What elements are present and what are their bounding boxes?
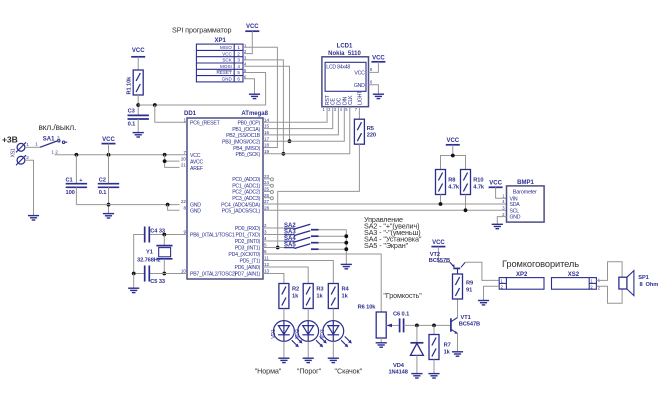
svg-text:R3: R3 bbox=[316, 287, 323, 293]
DD1 pin 20 AVCC bbox=[181, 156, 204, 165]
wire PD5 to R4 bbox=[263, 261, 333, 284]
resistor R5 220 bbox=[354, 119, 376, 144]
svg-text:26: 26 bbox=[264, 193, 270, 198]
svg-text:VCC: VCC bbox=[354, 71, 365, 77]
svg-text:XP2: XP2 bbox=[516, 272, 528, 278]
svg-text:1: 1 bbox=[237, 45, 240, 50]
wire branch to GND pin 8 bbox=[168, 205, 180, 211]
svg-text:VCC: VCC bbox=[432, 240, 445, 246]
svg-text:PC2_(ADC2): PC2_(ADC2) bbox=[232, 190, 260, 196]
wire XP1 pin2 to VCC bbox=[243, 31, 252, 53]
DD1 right pins PB0-PB5 bbox=[222, 117, 270, 158]
power VCC symbol above R1 bbox=[131, 48, 145, 70]
wire XS1 pin1 to SA1 bbox=[25, 146, 40, 148]
power VCC symbol above R8/R10 bbox=[446, 138, 460, 155]
wire PD2 row bbox=[263, 240, 294, 242]
svg-text:28: 28 bbox=[264, 205, 270, 210]
svg-text:"Скачок": "Скачок" bbox=[335, 367, 363, 376]
svg-text:PB4_(MISO): PB4_(MISO) bbox=[233, 146, 260, 152]
svg-text:MOSI: MOSI bbox=[220, 64, 232, 69]
svg-text:PD2_(INT0): PD2_(INT0) bbox=[235, 239, 261, 245]
svg-text:PB7_(XTAL2/TOSC2): PB7_(XTAL2/TOSC2) bbox=[190, 272, 237, 278]
svg-text:4.7k: 4.7k bbox=[473, 185, 485, 191]
wire SA4 to common bbox=[319, 242, 347, 244]
svg-text:GND: GND bbox=[354, 83, 365, 89]
resistor R9 91 bbox=[453, 274, 474, 299]
svg-text:Y1: Y1 bbox=[146, 250, 153, 256]
svg-text:PD4_(XCK/T0): PD4_(XCK/T0) bbox=[228, 252, 260, 258]
capacitor C5 33 bbox=[145, 266, 165, 286]
svg-text:SDA: SDA bbox=[510, 202, 521, 208]
svg-text:11: 11 bbox=[264, 256, 269, 261]
ground at XS1 pin2 bbox=[28, 216, 39, 220]
junction GND pin branch bbox=[166, 203, 170, 207]
crystal Y1 32.768Hz bbox=[137, 235, 173, 274]
connector XS1 pin 2 bbox=[17, 156, 25, 164]
svg-text:27: 27 bbox=[264, 199, 270, 204]
svg-text:SCL: SCL bbox=[510, 208, 520, 214]
junction at C1 top bbox=[75, 153, 79, 157]
wire SA5 to common bbox=[319, 248, 347, 250]
svg-text:4.7k: 4.7k bbox=[448, 185, 460, 191]
junction MOSI net bbox=[288, 139, 292, 143]
svg-text:PC0_(ADC0): PC0_(ADC0) bbox=[232, 177, 260, 183]
svg-text:8 Ohm: 8 Ohm bbox=[640, 282, 659, 288]
junction VCC pins branch bbox=[163, 153, 167, 157]
svg-text:C3: C3 bbox=[128, 109, 135, 115]
ground at crystal bbox=[128, 288, 139, 292]
svg-text:GND: GND bbox=[190, 202, 201, 208]
wire SA3 to common bbox=[319, 235, 347, 237]
svg-text:VCC: VCC bbox=[489, 181, 502, 187]
svg-text:"Норма": "Норма" bbox=[255, 367, 282, 376]
svg-text:19: 19 bbox=[264, 149, 270, 154]
svg-text:1N4148: 1N4148 bbox=[388, 370, 407, 376]
LCD1 Nokia 5110 bbox=[322, 44, 373, 112]
svg-text:24: 24 bbox=[264, 180, 270, 185]
svg-text:4: 4 bbox=[264, 236, 267, 241]
ground below C2 bbox=[103, 214, 114, 218]
crystal section: wire PB6 row bbox=[134, 235, 180, 274]
ground at BMP1 bbox=[492, 224, 503, 228]
junction VD4 bbox=[415, 324, 419, 328]
ground at XP2 bbox=[478, 301, 489, 305]
svg-text:32.768Hz: 32.768Hz bbox=[137, 257, 161, 263]
svg-text:С6 0.1: С6 0.1 bbox=[393, 312, 409, 318]
svg-text:R8: R8 bbox=[448, 178, 455, 184]
svg-text:PC3_(ADC3): PC3_(ADC3) bbox=[232, 196, 260, 202]
svg-text:4: 4 bbox=[237, 64, 240, 69]
svg-text:PB1_(OC1A): PB1_(OC1A) bbox=[232, 127, 260, 133]
LED VD1 bbox=[271, 321, 303, 358]
svg-text:2: 2 bbox=[264, 223, 267, 228]
svg-text:VCC: VCC bbox=[222, 51, 232, 56]
svg-text:14: 14 bbox=[264, 117, 270, 122]
svg-text:VCC: VCC bbox=[132, 48, 145, 54]
svg-text:18: 18 bbox=[264, 143, 270, 148]
resistor R8 4.7k bbox=[436, 170, 460, 205]
junction C2 bottom bbox=[107, 203, 111, 207]
svg-text:10: 10 bbox=[181, 269, 187, 274]
svg-text:"Громкость": "Громкость" bbox=[383, 291, 422, 300]
connector XS1 pin 1 bbox=[17, 143, 25, 151]
svg-text:C5 33: C5 33 bbox=[150, 279, 165, 285]
wire GND rail C1 to DD1 bbox=[76, 204, 179, 206]
resistor R1 10k bbox=[127, 70, 144, 115]
svg-text:MISO: MISO bbox=[220, 45, 232, 50]
capacitor C2 bbox=[98, 155, 119, 214]
svg-text:SPI программатор: SPI программатор bbox=[172, 25, 232, 34]
svg-text:91: 91 bbox=[466, 288, 472, 294]
svg-text:R7: R7 bbox=[444, 343, 451, 349]
wire XS1 pin2 to ground bbox=[25, 160, 34, 215]
DD1 NC pin 25 stub bbox=[263, 191, 273, 194]
svg-text:23: 23 bbox=[264, 174, 270, 179]
wire BMP1 GND to ground bbox=[497, 217, 506, 225]
DD1 pin 10 PB7_(XTAL2/TOSC2 bbox=[180, 269, 237, 278]
svg-text:PC5_(ADC5/SCL): PC5_(ADC5/SCL) bbox=[222, 209, 261, 215]
button SA2 bbox=[284, 223, 319, 230]
switch SA1 bbox=[25, 135, 67, 154]
wire XP1 pin3 SCK vertical bbox=[243, 60, 283, 154]
svg-text:R4: R4 bbox=[342, 287, 350, 293]
svg-text:VD4: VD4 bbox=[393, 363, 405, 369]
svg-text:PB2_(SS/OC1B: PB2_(SS/OC1B bbox=[226, 133, 261, 139]
svg-text:12: 12 bbox=[264, 262, 270, 267]
power VCC symbol at BMP1 bbox=[489, 181, 503, 188]
svg-text:R10: R10 bbox=[473, 178, 483, 184]
svg-text:вкл./выкл.: вкл./выкл. bbox=[39, 122, 77, 132]
ground at LCD bbox=[373, 94, 384, 98]
wire VCC to pullups bbox=[441, 156, 466, 170]
junction SA4 common bbox=[344, 241, 348, 245]
LED VD3 bbox=[320, 321, 352, 358]
resistor R2 1k bbox=[279, 284, 299, 321]
resistor R7 1k bbox=[429, 325, 451, 373]
junction RESET to pin1 bbox=[153, 103, 157, 107]
DD1 NC pin 23 stub bbox=[263, 178, 273, 181]
ground at VD1 bbox=[278, 358, 289, 362]
wire PD6 to R3 bbox=[263, 267, 308, 284]
svg-text:VCC: VCC bbox=[446, 138, 459, 144]
junction SCK net bbox=[282, 152, 286, 156]
svg-text:3: 3 bbox=[57, 135, 60, 140]
DD1 pin 7 VCC bbox=[183, 150, 200, 159]
svg-text:AVCC: AVCC bbox=[190, 160, 204, 166]
ground at VT1 bbox=[452, 352, 463, 356]
svg-text:R5: R5 bbox=[367, 126, 374, 132]
connector XS1 bbox=[11, 142, 30, 165]
DD1 right pins PD0-PD7 bbox=[228, 223, 269, 278]
svg-text:CLK: CLK bbox=[348, 95, 354, 105]
svg-text:C1: C1 bbox=[66, 178, 73, 184]
svg-text:SP1: SP1 bbox=[638, 275, 648, 281]
svg-text:1: 1 bbox=[183, 117, 186, 122]
wire branch to AVCC/AREF pins bbox=[165, 155, 180, 168]
junction Y1 bottom bbox=[162, 272, 166, 276]
ground at R7 bbox=[428, 374, 439, 378]
IC DD1 ATmega8 bbox=[184, 111, 269, 279]
svg-text:21: 21 bbox=[181, 163, 187, 168]
svg-text:100: 100 bbox=[66, 190, 75, 196]
svg-text:R6 10k: R6 10k bbox=[358, 304, 377, 310]
switch SA1 lever bbox=[40, 141, 57, 147]
svg-text:PD5_(T1): PD5_(T1) bbox=[240, 259, 261, 265]
wire LCD LIGHT to R5 bbox=[358, 107, 360, 120]
connector XP1 bbox=[196, 38, 247, 82]
wire LCD DC to PB2 bbox=[263, 107, 338, 135]
wire PD3 row bbox=[263, 247, 294, 249]
svg-text:R1 10k: R1 10k bbox=[127, 76, 133, 95]
svg-text:VCC: VCC bbox=[102, 137, 115, 143]
svg-text:PD7_(AIN1): PD7_(AIN1) bbox=[235, 272, 261, 278]
junction SA3 common bbox=[344, 234, 348, 238]
LED VD2 bbox=[295, 321, 327, 358]
svg-text:BC557B: BC557B bbox=[429, 258, 450, 264]
svg-text:1: 1 bbox=[26, 142, 29, 147]
svg-text:PB5_(SCK): PB5_(SCK) bbox=[235, 152, 260, 158]
wire VCC rail from SA1 to DD1 bbox=[55, 154, 188, 156]
svg-text:25: 25 bbox=[264, 187, 270, 192]
svg-text:RESET: RESET bbox=[216, 70, 232, 75]
connector XS2 bbox=[552, 272, 601, 291]
wire SDA PC4 to BMP1 bbox=[263, 203, 507, 205]
svg-text:7: 7 bbox=[183, 150, 186, 155]
wire XS2 pin2 to speaker bbox=[596, 286, 622, 303]
ground at VD4 bbox=[411, 374, 422, 378]
wire VT2 collector to XP2 bbox=[465, 262, 499, 280]
power VCC symbol at XP1 pin2 bbox=[245, 24, 259, 31]
ground below C3 bbox=[133, 133, 144, 137]
junction pullup VCC bbox=[451, 154, 455, 158]
svg-text:1: 1 bbox=[35, 142, 38, 147]
svg-text:3: 3 bbox=[237, 58, 240, 63]
junction SA5 common bbox=[344, 247, 348, 251]
capacitor C1 bbox=[66, 155, 88, 205]
wire XP1 pin6 to ground bbox=[243, 79, 255, 94]
svg-text:Громкоговоритель: Громкоговоритель bbox=[502, 259, 579, 269]
resistor R4 1k bbox=[328, 284, 349, 321]
power VCC symbol at LCD bbox=[371, 55, 385, 62]
svg-text:VT1: VT1 bbox=[461, 315, 471, 321]
resistor R10 4.7k bbox=[461, 170, 485, 211]
svg-text:Barometer: Barometer bbox=[513, 189, 537, 195]
junction R1/C3 bbox=[136, 103, 140, 107]
svg-text:8: 8 bbox=[183, 206, 186, 211]
svg-text:17: 17 bbox=[264, 136, 270, 141]
speaker SP1 8 Ohm bbox=[619, 271, 658, 296]
svg-text:0.1: 0.1 bbox=[99, 190, 107, 196]
svg-text:+3В: +3В bbox=[2, 135, 18, 145]
svg-text:VCC: VCC bbox=[246, 24, 259, 30]
wire XP1 pin1 MISO to PB4 bbox=[243, 47, 277, 147]
svg-text:VD1: VD1 bbox=[271, 329, 277, 339]
svg-text:VD2: VD2 bbox=[295, 329, 301, 339]
svg-text:XP1: XP1 bbox=[215, 38, 227, 44]
svg-text:XS2: XS2 bbox=[568, 272, 580, 278]
junction left crystal rail bbox=[132, 272, 136, 276]
DD1 pin 1 PC6_(RESET bbox=[180, 117, 221, 126]
ground at VD2 bbox=[303, 358, 314, 362]
svg-text:BC547B: BC547B bbox=[459, 322, 480, 328]
ground at R6 bbox=[376, 343, 387, 347]
wire PB7 row bbox=[134, 273, 180, 275]
wire LCD VCC pin 8 bbox=[369, 62, 379, 73]
svg-text:SCK: SCK bbox=[222, 58, 232, 63]
wire XS2 pin1 to speaker bbox=[596, 262, 622, 281]
svg-text:PB3_(MOSI/OC2): PB3_(MOSI/OC2) bbox=[222, 140, 261, 146]
wire RESET net horizontal bbox=[138, 73, 265, 106]
svg-text:XS1: XS1 bbox=[11, 148, 17, 157]
button SA3 bbox=[284, 230, 319, 237]
svg-text:GND: GND bbox=[510, 215, 521, 221]
DD1 pin 9 PB6_(XTAL1/TOSC1 bbox=[180, 230, 235, 239]
label Управление block bbox=[364, 215, 422, 250]
transistor VT2 BC557B bbox=[429, 252, 465, 274]
svg-text:PD6_(AIN0): PD6_(AIN0) bbox=[235, 265, 261, 271]
svg-text:5: 5 bbox=[264, 243, 267, 248]
DD1 NC pin 24 stub bbox=[263, 184, 273, 187]
svg-text:6: 6 bbox=[237, 77, 240, 82]
svg-text:SA5 - "Экран": SA5 - "Экран" bbox=[364, 241, 409, 250]
ground at VD3 bbox=[328, 358, 339, 362]
ground at buttons bbox=[341, 264, 352, 268]
DD1 pin 8 GND bbox=[183, 206, 201, 215]
svg-text:3: 3 bbox=[264, 230, 267, 235]
wire XP2 pin2 to ground bbox=[484, 286, 500, 300]
svg-text:LIGHT: LIGHT bbox=[357, 90, 363, 105]
svg-text:1k: 1k bbox=[292, 293, 299, 299]
wire VT1 collector to R9 bbox=[457, 300, 459, 318]
svg-text:1k: 1k bbox=[444, 349, 451, 355]
wire buttons common to ground bbox=[345, 230, 347, 265]
potentiometer R6 10k bbox=[358, 304, 400, 342]
svg-text:PC1_(ADC1): PC1_(ADC1) bbox=[232, 183, 260, 189]
wire XP1 pin4 MOSI vertical bbox=[243, 66, 290, 141]
wire VCC to BMP1 VIN bbox=[496, 187, 507, 198]
svg-text:LCD 84x48: LCD 84x48 bbox=[326, 64, 350, 70]
svg-text:PC6_(RESET: PC6_(RESET bbox=[190, 121, 221, 127]
junction AVCC branch bbox=[163, 159, 167, 163]
svg-text:PD0_(RXD): PD0_(RXD) bbox=[235, 226, 261, 232]
capacitor C6 0.1 bbox=[393, 312, 409, 333]
svg-text:LCD1: LCD1 bbox=[337, 44, 353, 50]
svg-text:R9: R9 bbox=[466, 281, 473, 287]
wire VT1 emitter to ground bbox=[457, 334, 459, 352]
button SA4 bbox=[284, 236, 319, 243]
svg-text:GND: GND bbox=[222, 77, 233, 82]
capacitor C3 bbox=[128, 109, 149, 133]
DD1 pin 21 AREF bbox=[181, 163, 203, 172]
svg-text:PB6_(XTAL1/TOSC1: PB6_(XTAL1/TOSC1 bbox=[190, 233, 235, 239]
DD1 right pins PC0-PC5 bbox=[221, 174, 269, 215]
svg-text:PB0_(ICP): PB0_(ICP) bbox=[237, 121, 260, 127]
svg-text:22: 22 bbox=[181, 199, 187, 204]
ground at XP1 pin6 bbox=[249, 94, 260, 98]
svg-text:1k: 1k bbox=[316, 293, 323, 299]
connector XP2 bbox=[499, 272, 544, 290]
wire PD1 row bbox=[263, 234, 294, 236]
svg-text:15: 15 bbox=[264, 124, 270, 129]
transistor VT1 BC547B bbox=[451, 315, 480, 334]
svg-text:2: 2 bbox=[237, 51, 240, 56]
button SA5 bbox=[284, 243, 319, 250]
junction backlight/SA5 bbox=[276, 246, 280, 250]
power VCC symbol above C2 bbox=[102, 137, 116, 155]
svg-text:DD1: DD1 bbox=[184, 111, 197, 117]
module BMP1 Barometer bbox=[502, 180, 544, 222]
svg-text:5: 5 bbox=[237, 70, 240, 75]
wire LCD RST to PB0 bbox=[263, 107, 327, 123]
wire LCD CLK to PB5 bbox=[263, 107, 350, 154]
junction R7 bbox=[432, 324, 436, 328]
svg-text:1 2: 1 2 bbox=[51, 150, 58, 155]
wire LCD GND pin 6 to ground bbox=[369, 85, 379, 94]
wire PD7 to R2 bbox=[263, 274, 284, 284]
svg-text:PC4_(ADC4/SDA): PC4_(ADC4/SDA) bbox=[221, 202, 260, 208]
svg-text:1k: 1k bbox=[342, 293, 349, 299]
svg-text:PD1_(TXD): PD1_(TXD) bbox=[235, 233, 260, 239]
wire PD4 to volume pot bbox=[263, 254, 381, 312]
svg-text:0.1: 0.1 bbox=[128, 122, 136, 128]
svg-text:20: 20 bbox=[181, 156, 187, 161]
capacitor C4 33 bbox=[145, 227, 165, 243]
wire RESET down to PC6 pin 1 bbox=[155, 105, 180, 122]
junction Y1 top bbox=[162, 233, 166, 237]
svg-text:R2: R2 bbox=[292, 287, 299, 293]
svg-text:220: 220 bbox=[367, 133, 376, 139]
svg-text:9: 9 bbox=[183, 230, 186, 235]
svg-text:VD3: VD3 bbox=[320, 329, 326, 339]
svg-text:VCC: VCC bbox=[190, 153, 201, 159]
power VCC symbol at VT2 bbox=[431, 240, 445, 246]
svg-text:6: 6 bbox=[264, 249, 267, 254]
wire R5 to PC2 backlight net bbox=[278, 144, 360, 247]
svg-text:VCC: VCC bbox=[372, 55, 385, 61]
diode VD4 1N4148 bbox=[388, 325, 423, 375]
svg-text:AREF: AREF bbox=[190, 166, 203, 172]
junction R10/SCL bbox=[464, 208, 468, 212]
wire LCD DIN to PB3 bbox=[263, 107, 344, 142]
DD1 pin 22 GND bbox=[181, 199, 201, 208]
wire VCC to VT2 emitter bbox=[438, 247, 450, 263]
wire C6 to VT1 base bbox=[404, 324, 451, 326]
svg-text:2: 2 bbox=[26, 155, 29, 160]
junction at C2/VCC top bbox=[107, 153, 111, 157]
wire LCD CE to PB1 bbox=[263, 107, 333, 129]
junction R8/SDA bbox=[439, 202, 443, 206]
resistor R3 1k bbox=[303, 284, 323, 321]
svg-text:13: 13 bbox=[264, 269, 270, 274]
svg-text:"Порог": "Порог" bbox=[297, 367, 322, 376]
svg-text:ATmega8: ATmega8 bbox=[241, 111, 268, 117]
wire SA2 to common bbox=[319, 229, 347, 231]
wire crystal rail to ground bbox=[133, 274, 135, 289]
svg-text:16: 16 bbox=[264, 130, 270, 135]
buttons section: wire PD0 row bbox=[263, 227, 294, 229]
wire SCL PC5 to BMP1 bbox=[263, 209, 507, 211]
svg-text:GND: GND bbox=[190, 209, 201, 215]
DD1 NC pin 26 stub bbox=[263, 197, 273, 200]
svg-text:C2: C2 bbox=[99, 178, 106, 184]
svg-text:PD3_(INT1): PD3_(INT1) bbox=[235, 246, 261, 252]
